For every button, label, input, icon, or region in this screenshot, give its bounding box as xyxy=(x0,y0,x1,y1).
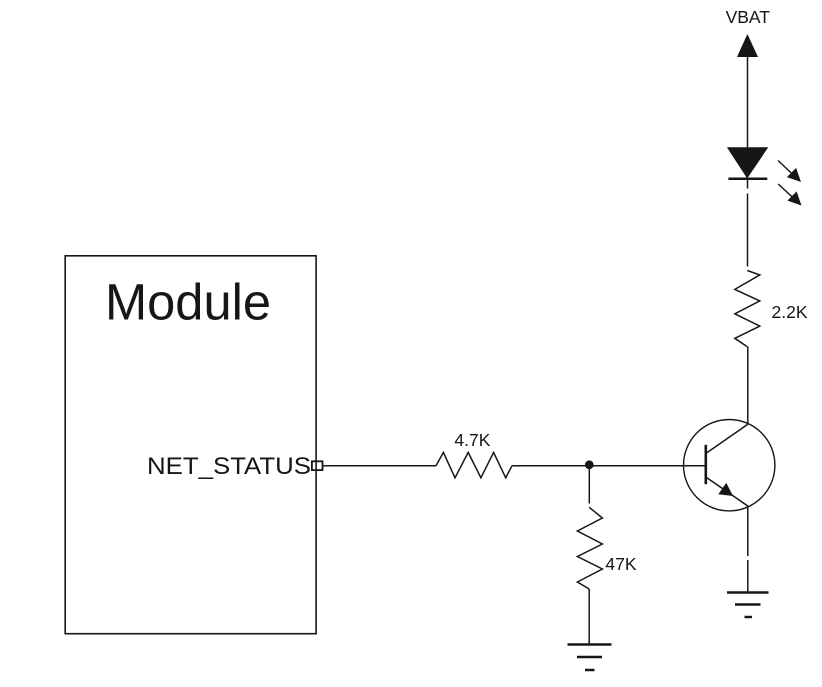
value label 2.2K xyxy=(772,302,808,322)
LED D1 xyxy=(728,148,768,179)
transistor Q1 xyxy=(684,420,775,511)
value label 4.7K xyxy=(454,430,490,450)
svg-text:Module: Module xyxy=(105,274,271,331)
resistor R3 2.2K xyxy=(735,271,760,347)
node: base junction dot xyxy=(585,460,594,469)
wire: junction down to R2 xyxy=(588,466,590,504)
net label VBAT xyxy=(726,7,771,27)
wire: junction to transistor base xyxy=(589,465,706,467)
module box U1 xyxy=(65,256,316,634)
wire: emitter down to ground xyxy=(747,506,749,593)
svg-text:NET_STATUS: NET_STATUS xyxy=(147,453,311,480)
wire: LED anode up to VBAT xyxy=(747,57,749,148)
svg-text:47K: 47K xyxy=(605,554,636,574)
ground (emitter) xyxy=(727,593,769,618)
svg-text:2.2K: 2.2K xyxy=(772,302,808,322)
wire: collector up to R3 xyxy=(747,347,749,425)
wire: NET_STATUS pin to R1 xyxy=(323,465,436,467)
label Module xyxy=(105,274,271,331)
svg-text:VBAT: VBAT xyxy=(726,7,771,27)
resistor R1 4.7K xyxy=(436,452,512,477)
pin square NET_STATUS xyxy=(312,461,323,470)
wire: R3 up to LED cathode xyxy=(747,179,749,267)
ground (R2) xyxy=(568,645,612,671)
svg-text:4.7K: 4.7K xyxy=(454,430,490,450)
LED light arrow 2 xyxy=(778,184,801,206)
resistor R2 47K xyxy=(577,507,602,589)
power symbol VBAT xyxy=(737,34,758,57)
LED light arrow 1 xyxy=(778,161,801,183)
value label 47K xyxy=(605,554,636,574)
wire: R1 to base node xyxy=(512,465,589,467)
pin label NET_STATUS xyxy=(147,453,311,480)
wire: R2 to ground xyxy=(588,589,590,645)
